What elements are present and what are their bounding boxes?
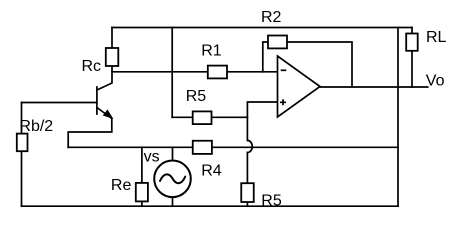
- svg-text:vs: vs: [144, 148, 160, 165]
- svg-text:Rb/2: Rb/2: [19, 118, 53, 135]
- svg-text:R5: R5: [186, 88, 207, 105]
- svg-text:Vo: Vo: [426, 73, 445, 90]
- svg-text:RL: RL: [426, 29, 447, 46]
- svg-text:R5: R5: [261, 193, 282, 210]
- svg-text:R1: R1: [201, 43, 222, 60]
- svg-text:Rc: Rc: [82, 58, 102, 75]
- svg-text:R2: R2: [261, 9, 282, 26]
- svg-text:Re: Re: [111, 177, 132, 194]
- svg-text:R4: R4: [201, 163, 222, 180]
